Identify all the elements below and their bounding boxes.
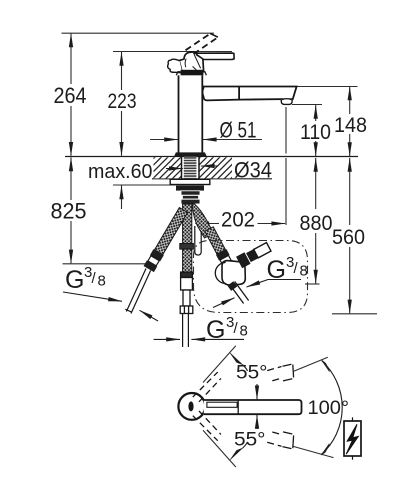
G3/8 bottom label [206, 314, 248, 344]
central hose bottom tube (G3/8 nipple) [183, 314, 189, 348]
faucet head body [179, 52, 203, 73]
55 degree arc arrow lower (at bar) [256, 415, 258, 429]
svg-text:/: / [294, 260, 299, 277]
dim 202 vertical extension line (outlet axis) [285, 107, 287, 154]
dim 148 top extension line [297, 86, 358, 88]
faucet lever dashed tip cap [210, 34, 218, 38]
svg-text:max.60: max.60 [88, 161, 153, 183]
G3/8 left leader with arrows [63, 292, 158, 321]
elbow down tube black band [227, 281, 237, 291]
countertop top line [65, 156, 358, 158]
lightning bolt [346, 424, 358, 454]
dim Ø34 arrows in counter band [166, 166, 218, 169]
dim Ø51 arrows [150, 139, 262, 141]
pull-out spray wand parked [195, 226, 201, 255]
G3/8 right label [267, 254, 308, 284]
svg-text:/: / [234, 320, 239, 337]
svg-text:55°: 55° [234, 428, 266, 450]
dim 223 top extension line [113, 51, 232, 53]
elbow spray-hose arm white end [254, 243, 271, 258]
dim 202 right arrow [258, 223, 286, 225]
left flexible hose braided section [154, 208, 187, 255]
elbow spray-hose arm black crimps [236, 248, 258, 268]
top view circle (faucet base) [178, 393, 205, 420]
faucet head left lobe [168, 59, 183, 73]
dim 223 vertical dimension line with arrows [121, 52, 123, 156]
elbow ball arc [215, 263, 226, 284]
svg-text:264: 264 [54, 83, 87, 108]
elbow down tube [230, 282, 249, 304]
faucet base plinth [175, 153, 207, 157]
svg-text:8: 8 [300, 263, 308, 280]
top view dashed swivel position upper [193, 372, 221, 402]
svg-text:110: 110 [300, 121, 331, 144]
svg-text:G: G [65, 266, 84, 294]
top view dashed swivel position lower [193, 411, 221, 441]
svg-text:560: 560 [332, 225, 365, 249]
svg-text:55°: 55° [236, 361, 268, 383]
left hose hex connector [144, 249, 164, 272]
faucet head base black band [181, 70, 204, 76]
svg-text:8: 8 [240, 323, 248, 340]
100 degree leg upper [293, 357, 328, 371]
dim 148 vertical dimension line [349, 87, 351, 157]
svg-text:148: 148 [334, 114, 367, 137]
100 degree leg lower [293, 446, 333, 457]
left hose thin tube [125, 269, 150, 314]
55 degree leg upper [203, 346, 236, 383]
dim 202 leader left arrow [195, 223, 219, 225]
dim max.60 arrow below [121, 185, 123, 209]
dim 880 bottom extension line [305, 283, 320, 285]
dim 560 vertical dimension line [349, 158, 351, 314]
central braided hose lower [183, 249, 192, 272]
faucet lever dashed raised position [186, 34, 218, 54]
right hose hex connector [216, 249, 235, 271]
central braided hose upper [183, 204, 192, 244]
svg-text:Ø34: Ø34 [234, 158, 272, 183]
top view dashed end cap upper [267, 364, 293, 381]
faucet column [179, 75, 203, 153]
dim 880 vertical dimension line [315, 158, 317, 284]
55 degree arc arrow upper (at bar) [256, 384, 258, 399]
dim 560 bottom extension line [332, 313, 377, 315]
G3/8 bottom arrows [154, 338, 244, 340]
electrical warning box [344, 421, 361, 456]
faucet lever [196, 53, 234, 59]
100 degree arc arrowheads [322, 360, 330, 371]
countertop hatch right of shank [200, 157, 233, 178]
svg-text:825: 825 [51, 199, 87, 224]
central hose fitting [180, 272, 193, 313]
svg-text:/: / [92, 270, 97, 287]
right hose straight braid [205, 227, 226, 254]
mounting nut stack [181, 191, 200, 204]
faucet mousseur outlet [281, 99, 292, 104]
top view joint line [237, 400, 239, 414]
central hose nut band [180, 244, 194, 250]
svg-text:202: 202 [221, 209, 255, 232]
svg-text:880: 880 [300, 211, 333, 235]
dim 110 vertical dimension line [315, 105, 317, 156]
washer plate under counter [170, 179, 210, 184]
faucet spout [202, 87, 296, 101]
faucet head inner strokes [185, 55, 201, 71]
countertop hatch left of shank [154, 157, 182, 178]
svg-text:8: 8 [98, 273, 106, 290]
100 degree arc [322, 361, 343, 454]
top view dashed end cap lower [267, 432, 293, 449]
svg-text:Ø 51: Ø 51 [220, 117, 257, 142]
G3/8 right leader with arrows [213, 280, 301, 308]
right flexible hose curved braid from shank [192, 204, 214, 238]
top view spout bar [204, 400, 302, 414]
dim 825 vertical dimension line with arrows [70, 157, 72, 263]
top view joystick dot [188, 401, 193, 411]
svg-text:223: 223 [108, 90, 137, 113]
55 degree leg lower [203, 430, 236, 467]
sink dash-dot outline [194, 241, 308, 313]
dark washer band [176, 185, 204, 190]
55 degree arc arrow upper (at dashed bar) [230, 353, 243, 365]
dim 110 top extension line [292, 104, 322, 106]
dim 264 top extension line [62, 32, 215, 34]
countertop bottom line [152, 178, 272, 180]
faucet head base step [176, 72, 206, 75]
dim 264 vertical dimension line with arrows [70, 34, 72, 156]
dim max.60 bottom extension line [113, 184, 176, 186]
threaded shank through counter [184, 157, 197, 179]
svg-text:100°: 100° [308, 398, 350, 419]
elbow check-valve body [222, 261, 245, 285]
G3/8 left label [65, 264, 106, 294]
55 degree arc arrow lower (at dashed bar) [230, 448, 243, 460]
top view spray head inner rect [207, 402, 237, 407]
dim 825 bottom extension line [63, 263, 156, 265]
